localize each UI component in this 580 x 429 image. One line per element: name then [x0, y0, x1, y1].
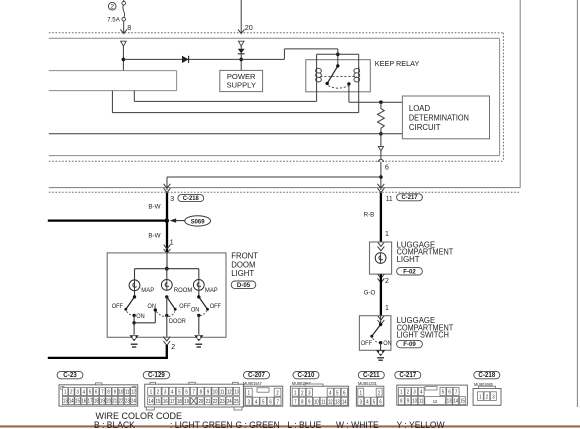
connector label C-218 [178, 195, 204, 203]
wire left branch drop [166, 177, 168, 190]
svg-text:10: 10 [412, 398, 417, 403]
svg-text:22: 22 [119, 398, 124, 403]
svg-text:Y : YELLOW: Y : YELLOW [397, 420, 446, 429]
svg-text:ON: ON [383, 341, 391, 347]
svg-text:MU801547: MU801547 [243, 381, 262, 387]
wire pin6 cont [380, 151, 382, 159]
svg-text:16: 16 [163, 399, 168, 404]
lamp luggage [375, 253, 386, 264]
pin 8 terminal [121, 41, 127, 46]
connector label F-02 [397, 268, 423, 276]
svg-text:17: 17 [170, 399, 175, 404]
wire outer ECU box right edge [519, 0, 521, 188]
ground G2 [194, 335, 203, 347]
svg-text:13: 13 [335, 399, 340, 404]
connector C-217 crossing [378, 184, 385, 193]
svg-text:KEEP RELAY: KEEP RELAY [375, 59, 420, 68]
wire relay output [349, 84, 403, 102]
wire pin6 down [380, 134, 382, 147]
wire ignition feed [240, 0, 242, 33]
connector pinout C-207 [243, 371, 283, 406]
wire lamp3 to sw [198, 290, 200, 297]
svg-text:LIGHT: LIGHT [231, 269, 254, 278]
node resistor top [379, 100, 383, 104]
svg-text:1: 1 [479, 394, 482, 399]
diode D2 [238, 49, 245, 54]
svg-text:F-02: F-02 [403, 268, 416, 275]
svg-text:C-218: C-218 [478, 372, 495, 379]
svg-text:MU801331: MU801331 [358, 381, 377, 387]
wire G-O [380, 274, 382, 316]
svg-text:3: 3 [76, 389, 79, 394]
wire inner unit box bottom [49, 155, 500, 157]
wire coil1 drop [133, 91, 135, 102]
node split junction [379, 175, 383, 179]
label OFF sw4 [361, 341, 373, 347]
wire map1 drop [134, 269, 136, 280]
svg-text:6: 6 [379, 399, 382, 404]
svg-text:1: 1 [150, 389, 153, 394]
svg-text:4: 4 [83, 389, 86, 394]
connector label C-217 top [397, 194, 423, 202]
svg-text:D-05: D-05 [237, 282, 251, 289]
svg-text:12: 12 [328, 399, 333, 404]
svg-text:6: 6 [185, 389, 188, 394]
node dashed bus line below ECU [49, 191, 520, 193]
svg-text:3: 3 [248, 399, 251, 404]
wire right coil riser [358, 54, 360, 70]
svg-text:OFF: OFF [210, 304, 222, 310]
connector label D-05 [231, 281, 256, 289]
pin 20 terminal [238, 41, 244, 46]
svg-text:C-207: C-207 [248, 372, 265, 379]
svg-text:8: 8 [200, 389, 203, 394]
box power supply U1 [220, 70, 263, 91]
svg-text:2: 2 [385, 278, 389, 285]
switch SW2 common [165, 295, 168, 298]
pin 1 label lug switch [385, 305, 389, 312]
svg-text:3: 3 [413, 389, 416, 394]
svg-text:5: 5 [373, 399, 376, 404]
svg-text:3: 3 [170, 196, 174, 203]
luggage light entry crossing [378, 242, 385, 251]
svg-text:7.5A: 7.5A [107, 16, 120, 23]
wire relay feed [337, 49, 339, 66]
wire coil2 drop [111, 91, 113, 113]
relay dashed link [320, 75, 356, 77]
svg-text:1: 1 [64, 389, 67, 394]
node dashed ETACS box bottom [49, 160, 504, 162]
lamp map right [193, 280, 204, 291]
wire label G-O [364, 289, 376, 296]
label MAP right [205, 287, 218, 294]
svg-text:R-B: R-B [364, 211, 375, 218]
svg-text:10: 10 [119, 389, 124, 394]
svg-text:1: 1 [170, 240, 174, 247]
svg-text:16: 16 [81, 398, 86, 403]
wire bus riser [284, 49, 337, 60]
svg-text:2: 2 [301, 390, 304, 395]
svg-text:SUPPLY: SUPPLY [226, 80, 255, 89]
svg-text:OFF: OFF [361, 341, 373, 347]
connector pinout C-217 [395, 371, 468, 405]
node junction fuse bus [122, 58, 126, 62]
svg-text:MAP: MAP [141, 287, 154, 294]
switch SW1 on contact [132, 314, 135, 317]
box luggage light F-02 [370, 242, 392, 274]
svg-text:B-W: B-W [148, 232, 161, 239]
connector pinout C-210 [290, 371, 348, 406]
wire bus fuse to relay [123, 58, 284, 60]
wire tie step [134, 310, 155, 323]
svg-text:20: 20 [106, 398, 111, 403]
wire page border right [576, 0, 578, 407]
svg-text:3: 3 [360, 399, 363, 404]
wire label B-W 2 [148, 232, 161, 239]
svg-text:9: 9 [407, 398, 410, 403]
label ON sw2 [148, 304, 156, 310]
box luggage switch F-09 [359, 316, 391, 351]
ground G3 [376, 350, 385, 360]
pin 2 label luggage [385, 278, 389, 285]
svg-text:ON: ON [148, 304, 156, 310]
wire right coil bottom [358, 83, 360, 112]
svg-text:2: 2 [378, 390, 381, 395]
svg-text:24: 24 [131, 398, 136, 403]
svg-text:11: 11 [125, 389, 130, 394]
svg-text:2: 2 [110, 4, 114, 11]
svg-text:11: 11 [386, 196, 393, 203]
svg-text:2: 2 [276, 390, 279, 395]
svg-text:8: 8 [107, 389, 110, 394]
svg-text:2: 2 [70, 389, 73, 394]
svg-text:DOOR: DOOR [169, 319, 186, 325]
wire coil top bus [317, 53, 359, 55]
connector pinout C-23 [57, 371, 138, 406]
switch SW3 common [197, 295, 200, 298]
pin 20 label [245, 23, 253, 32]
label DOOR [169, 319, 186, 325]
switch SW4 top contact [379, 323, 382, 326]
svg-text:: LIGHT GREEN: : LIGHT GREEN [170, 420, 232, 429]
svg-text:11: 11 [419, 398, 424, 403]
lamp map left [129, 280, 140, 291]
pin 11 label [386, 196, 393, 203]
wire sw3 to ground [198, 315, 200, 334]
svg-text:LIGHT: LIGHT [397, 255, 420, 264]
node dashed ETACS box right [502, 33, 504, 162]
svg-text:C-211: C-211 [363, 372, 380, 379]
wire label R-B [364, 211, 375, 218]
wire B-W lower [166, 221, 168, 253]
svg-text:14: 14 [69, 398, 74, 403]
pin 8 label [127, 23, 131, 32]
svg-text:B : BLACK: B : BLACK [94, 420, 135, 429]
svg-text:5: 5 [442, 389, 445, 394]
svg-text:12: 12 [433, 399, 438, 404]
relay K1 box [306, 60, 371, 92]
splice S069 tag [170, 216, 211, 226]
wire label B-W 1 [148, 203, 161, 210]
svg-text:C-23: C-23 [63, 372, 77, 379]
svg-text:10: 10 [314, 399, 319, 404]
lug switch label [397, 316, 454, 340]
switch SW2 door contact [165, 314, 168, 317]
svg-text:20: 20 [245, 23, 253, 32]
svg-text:15: 15 [75, 398, 80, 403]
label ROOM [174, 287, 192, 294]
label OFF sw1 [112, 304, 124, 310]
svg-text:23: 23 [125, 398, 130, 403]
svg-text:2: 2 [157, 389, 160, 394]
wire outer ECU box bottom edge [49, 187, 520, 189]
svg-text:13: 13 [447, 398, 452, 403]
wire color code legend [94, 420, 445, 429]
svg-text:14: 14 [149, 399, 154, 404]
svg-text:25: 25 [234, 399, 239, 404]
svg-text:6: 6 [95, 389, 98, 394]
wire sw4 to ground [380, 343, 382, 351]
svg-text:9: 9 [308, 399, 311, 404]
switch SW1 common [133, 295, 136, 298]
label MAP left [141, 287, 154, 294]
pin 2 label dome [171, 344, 175, 351]
svg-text:MAP: MAP [205, 287, 218, 294]
front doom light label [231, 252, 258, 278]
svg-text:4: 4 [420, 389, 423, 394]
svg-text:OFF: OFF [112, 304, 124, 310]
wire coil1 return [134, 100, 316, 102]
wire diode to junction [240, 54, 242, 71]
svg-text:ON: ON [191, 307, 199, 313]
svg-text:6: 6 [269, 399, 272, 404]
node splice S069 [165, 218, 170, 223]
relay coil L1 [316, 67, 322, 84]
svg-text:9: 9 [114, 389, 117, 394]
svg-text:5: 5 [178, 389, 181, 394]
svg-text:4: 4 [255, 399, 258, 404]
resistor R1 [378, 102, 385, 134]
lug switch entry crossing [378, 316, 385, 325]
switch SW4 dashed arc [373, 338, 380, 342]
switch SW4 bottom contact [379, 341, 382, 344]
wire dome feed [166, 253, 168, 269]
svg-text:22: 22 [213, 399, 218, 404]
pin 1 label luggage light [385, 231, 389, 238]
connector pinout C-129 [143, 371, 243, 410]
divider bar [0, 425, 580, 427]
svg-text:4: 4 [366, 399, 369, 404]
svg-text:C-129: C-129 [148, 372, 165, 379]
svg-text:4: 4 [329, 390, 332, 395]
svg-text:13: 13 [234, 389, 239, 394]
svg-text:C-210: C-210 [298, 372, 315, 379]
svg-text:8: 8 [301, 399, 304, 404]
svg-text:12: 12 [131, 389, 136, 394]
svg-text:17: 17 [88, 398, 93, 403]
wire dome pin2 down [166, 345, 168, 358]
connector pinout C-218 [473, 371, 501, 405]
wire fuse to ECU pin 8 [123, 21, 125, 33]
switch SW4 arm [370, 325, 380, 338]
wire room out [166, 297, 168, 337]
wire B-W upper [166, 193, 168, 221]
relay coil L2 [354, 67, 360, 84]
svg-text:2: 2 [407, 389, 410, 394]
svg-text:24: 24 [227, 399, 232, 404]
box front doom light D-05 [107, 253, 226, 337]
svg-text:5: 5 [336, 390, 339, 395]
node sw1 tie [132, 321, 135, 324]
svg-text:G-O: G-O [364, 289, 376, 296]
connector pinout C-211 [356, 371, 384, 406]
box interface module [49, 71, 177, 91]
svg-text:8: 8 [400, 398, 403, 403]
svg-text:15: 15 [156, 399, 161, 404]
wire room drop [166, 269, 168, 280]
svg-text:6: 6 [343, 390, 346, 395]
svg-text:1: 1 [248, 390, 251, 395]
wire color code title [96, 411, 183, 421]
svg-text:15: 15 [460, 398, 465, 403]
wire pin6 to split [380, 162, 382, 190]
svg-text:14: 14 [342, 399, 347, 404]
svg-text:12: 12 [227, 389, 232, 394]
wire dome bus [135, 268, 199, 270]
svg-text:1: 1 [294, 390, 297, 395]
lamp room [161, 280, 172, 291]
svg-text:DETERMINATION: DETERMINATION [409, 113, 469, 122]
switch SW2 dashed arcs [156, 312, 175, 317]
switch SW3 dashed arc [200, 311, 207, 315]
svg-text:3: 3 [492, 394, 495, 399]
svg-text:ROOM: ROOM [174, 287, 192, 294]
svg-text:19: 19 [100, 398, 105, 403]
svg-text:6: 6 [385, 162, 389, 171]
svg-text:CIRCUIT: CIRCUIT [409, 123, 441, 132]
svg-text:7: 7 [277, 399, 280, 404]
wire pin8 down [122, 46, 124, 71]
wire map2 drop [198, 269, 200, 280]
wire R-B [380, 193, 382, 242]
pin 1 label dome [170, 240, 174, 247]
switch SW2 arm [167, 297, 177, 311]
svg-text:7: 7 [193, 389, 196, 394]
svg-text:7: 7 [101, 389, 104, 394]
dome exit crossing [163, 337, 170, 346]
svg-text:21: 21 [206, 399, 211, 404]
label ON sw1 [136, 314, 144, 320]
switch SW1 dashed arc [127, 311, 134, 315]
svg-text:13: 13 [63, 398, 68, 403]
relay K1 label [375, 59, 420, 68]
wire inner unit box right [499, 39, 501, 156]
svg-text:20: 20 [198, 399, 203, 404]
svg-text:2: 2 [486, 394, 489, 399]
svg-text:23: 23 [220, 399, 225, 404]
wire B-W feed from left [48, 219, 167, 221]
connector C-218 crossing [164, 184, 171, 193]
relay contact 2 [347, 82, 350, 85]
node resistor bottom [379, 132, 383, 136]
svg-text:11: 11 [220, 389, 225, 394]
svg-text:LOAD: LOAD [409, 104, 431, 113]
svg-text:6: 6 [448, 389, 451, 394]
dome light entry crossing [164, 245, 171, 254]
relay switch arm [326, 64, 340, 85]
svg-text:1: 1 [400, 389, 403, 394]
svg-text:3: 3 [164, 389, 167, 394]
wire sw1 to ground [133, 315, 135, 334]
svg-text:F-09: F-09 [403, 341, 416, 348]
svg-text:11: 11 [321, 399, 326, 404]
svg-text:2: 2 [171, 344, 175, 351]
svg-text:S069: S069 [191, 218, 205, 225]
svg-text:19: 19 [184, 399, 189, 404]
svg-text:5: 5 [262, 399, 265, 404]
svg-text:LIGHT SWITCH: LIGHT SWITCH [397, 330, 449, 339]
wire coil2 return [112, 112, 358, 114]
connector label F-09 [397, 340, 423, 348]
wire split to left branch [167, 176, 381, 178]
svg-text:ON: ON [136, 314, 144, 320]
svg-text:C-217: C-217 [399, 372, 416, 379]
svg-text:8: 8 [127, 23, 131, 32]
svg-text:3: 3 [308, 390, 311, 395]
lug switch wire in [380, 316, 382, 325]
svg-text:OFF: OFF [179, 304, 191, 310]
node junction power supply [239, 58, 243, 62]
wire pin20 to diode [240, 46, 242, 49]
pin 6 terminal [378, 146, 383, 151]
switch SW2 on contact [154, 308, 157, 311]
svg-text:1: 1 [385, 231, 389, 238]
luggage light label [397, 240, 454, 264]
node dome bus [165, 267, 169, 271]
node relay coil junction [336, 53, 340, 57]
label OFF sw3 [210, 304, 222, 310]
wire inner unit box top [49, 37, 500, 39]
relay dashed throw arc [328, 86, 348, 89]
switch SW3 arm [199, 297, 209, 311]
svg-text:18: 18 [94, 398, 99, 403]
svg-text:C-218: C-218 [183, 195, 199, 202]
svg-text:W : WHITE: W : WHITE [336, 420, 379, 429]
node dashed ETACS box top [49, 32, 504, 34]
svg-text:4: 4 [171, 389, 174, 394]
wire left coil bottom [316, 83, 318, 101]
svg-text:C-217: C-217 [401, 194, 417, 201]
load determination label [409, 104, 469, 132]
svg-text:1: 1 [360, 390, 363, 395]
fuse F2 7.5A [107, 0, 125, 23]
label OFF sw2 [179, 304, 191, 310]
luggage light exit crossing [378, 274, 385, 283]
wire lamp1 to sw [134, 291, 136, 297]
svg-text:7: 7 [294, 399, 297, 404]
svg-text:B-W: B-W [148, 203, 161, 210]
svg-text:1: 1 [385, 305, 389, 312]
box load determination U2 [402, 96, 489, 139]
switch SW1 arm [124, 297, 134, 311]
svg-text:14: 14 [453, 398, 458, 403]
label ON sw3 [191, 307, 199, 313]
svg-text:L : BLUE: L : BLUE [288, 420, 322, 429]
svg-text:9: 9 [207, 389, 210, 394]
label ON sw4 [383, 341, 391, 347]
svg-text:18: 18 [177, 399, 182, 404]
svg-text:10: 10 [213, 389, 218, 394]
